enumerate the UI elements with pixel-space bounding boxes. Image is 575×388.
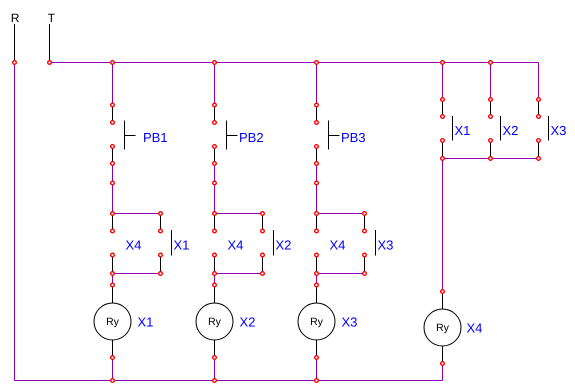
node xyxy=(489,115,493,119)
coil label X3 xyxy=(342,317,357,326)
wire (contact lead) xyxy=(160,214,162,232)
wire xyxy=(316,274,318,286)
pushbutton PB3 (NO contact symbol) xyxy=(329,121,340,150)
wire (box top) xyxy=(215,213,263,215)
wire (contact lead) xyxy=(442,100,444,117)
node xyxy=(111,181,115,185)
contact X3 bar (parallel group) xyxy=(548,116,550,141)
wire (parallel group bottom) xyxy=(443,158,539,160)
power terminal label T xyxy=(48,14,55,22)
wire (bottom rail) xyxy=(15,380,443,382)
wire (contact lead) xyxy=(160,255,162,274)
node xyxy=(441,157,445,161)
wire (contact lead) xyxy=(214,147,216,164)
wire (box top) xyxy=(317,213,365,215)
node xyxy=(489,98,493,102)
coil label X1 xyxy=(138,318,153,327)
wire (coil lead) xyxy=(112,340,114,358)
contact X1 bar (parallel group) xyxy=(452,116,454,141)
node xyxy=(261,229,265,233)
node (T bus start) xyxy=(48,61,52,65)
node (box top-left) xyxy=(213,212,217,216)
wire xyxy=(316,358,318,381)
pushbutton PB1 (NO contact symbol) xyxy=(125,121,136,150)
relay coil Ry X2 xyxy=(196,303,233,340)
wire (contact lead) xyxy=(364,214,366,232)
wire xyxy=(214,274,216,286)
pushbutton PB2 (NO contact symbol) xyxy=(227,121,238,150)
node xyxy=(213,162,217,166)
node xyxy=(315,283,319,287)
wire (left rail down) xyxy=(14,63,16,381)
node xyxy=(441,139,445,143)
coil label X2 xyxy=(240,317,255,326)
wire (R lead) xyxy=(14,24,16,63)
node xyxy=(441,115,445,119)
contact X4 label (rung 1) xyxy=(126,241,141,250)
wire (box bottom) xyxy=(215,273,263,275)
node xyxy=(537,98,541,102)
wire (coil lead) xyxy=(112,285,114,303)
wire (contact lead) xyxy=(214,255,216,274)
wire (contact lead) xyxy=(316,147,318,164)
relay coil Ry X3 xyxy=(298,303,335,340)
label PB1 xyxy=(144,133,167,142)
node xyxy=(537,157,541,161)
label PB2 xyxy=(240,133,263,142)
wire xyxy=(214,164,216,184)
node xyxy=(111,283,115,287)
node xyxy=(213,103,217,107)
node xyxy=(315,162,319,166)
label X1 (parallel branch) xyxy=(174,241,189,250)
wire (contact lead) xyxy=(538,100,540,117)
node xyxy=(363,229,367,233)
wire xyxy=(112,164,114,184)
contact X2 bar (parallel group) xyxy=(500,116,502,141)
wire xyxy=(316,164,318,184)
label X3 (parallel group) xyxy=(551,126,566,135)
wire (contact lead) xyxy=(316,105,318,123)
power terminal label R xyxy=(12,14,19,22)
wire xyxy=(112,63,114,106)
node (box top-right) xyxy=(261,212,265,216)
wire (contact lead) xyxy=(538,141,540,159)
node xyxy=(441,290,445,294)
wire (contact lead) xyxy=(112,147,114,164)
wire (contact lead) xyxy=(490,141,492,159)
wire (contact lead) xyxy=(316,214,318,232)
wire (coil lead) xyxy=(316,340,318,358)
node xyxy=(213,356,217,360)
wire (box top) xyxy=(113,213,161,215)
wire (T lead) xyxy=(49,24,51,63)
wire xyxy=(490,63,492,100)
node xyxy=(111,356,115,360)
node (bottom rail junction) xyxy=(213,379,217,383)
wire (coil lead) xyxy=(442,292,444,310)
node xyxy=(489,157,493,161)
node xyxy=(213,121,217,125)
wire (contact lead) xyxy=(112,255,114,274)
node (box bottom-right) xyxy=(261,272,265,276)
node (box top-right) xyxy=(363,212,367,216)
node (box bottom-right) xyxy=(159,272,163,276)
node xyxy=(159,229,163,233)
node (bus junction contact X1) xyxy=(441,61,445,65)
node xyxy=(315,121,319,125)
node xyxy=(111,253,115,257)
relay coil Ry X1 xyxy=(94,303,131,340)
node xyxy=(315,103,319,107)
node xyxy=(261,253,265,257)
wire (contact lead) xyxy=(214,214,216,232)
wire (box bottom) xyxy=(317,273,365,275)
node (box bottom-left) xyxy=(111,272,115,276)
wire xyxy=(112,358,114,381)
node (bottom rail junction) xyxy=(315,379,319,383)
wire xyxy=(214,358,216,381)
node xyxy=(111,162,115,166)
label PB3 xyxy=(342,133,365,142)
node (bus junction rung 2) xyxy=(213,61,217,65)
node xyxy=(315,181,319,185)
node xyxy=(111,145,115,149)
node xyxy=(315,253,319,257)
wire xyxy=(538,63,540,100)
node (box bottom-right) xyxy=(363,272,367,276)
node xyxy=(111,121,115,125)
node xyxy=(159,253,163,257)
node xyxy=(441,362,445,366)
contact X4 label (rung 2) xyxy=(228,241,243,250)
relay coil Ry X4 xyxy=(424,309,461,346)
wire (contact lead) xyxy=(316,255,318,274)
wire xyxy=(442,364,444,381)
wire xyxy=(112,183,114,214)
node xyxy=(363,253,367,257)
node (box top-left) xyxy=(315,212,319,216)
node xyxy=(111,229,115,233)
node xyxy=(213,229,217,233)
contact X1 bar (parallel branch) xyxy=(171,230,173,256)
wire xyxy=(316,183,318,214)
wire (X4 branch down) xyxy=(442,159,444,292)
coil label X4 xyxy=(467,324,482,333)
node (box top-left) xyxy=(111,212,115,216)
wire (top bus) xyxy=(50,62,539,64)
node xyxy=(213,145,217,149)
wire (coil lead) xyxy=(214,340,216,358)
node (box top-right) xyxy=(159,212,163,216)
contact X2 bar (parallel branch) xyxy=(273,230,275,256)
wire xyxy=(316,63,318,106)
node xyxy=(213,181,217,185)
wire (contact lead) xyxy=(214,105,216,123)
node (bus junction rung 1) xyxy=(111,61,115,65)
wire (contact lead) xyxy=(364,255,366,274)
node (box bottom-left) xyxy=(213,272,217,276)
wire (contact lead) xyxy=(262,255,264,274)
node xyxy=(537,139,541,143)
label X2 (parallel branch) xyxy=(276,240,291,249)
node (bottom rail junction) xyxy=(111,379,115,383)
node xyxy=(213,253,217,257)
wire (contact lead) xyxy=(112,214,114,232)
label X3 (parallel branch) xyxy=(378,240,393,249)
wire (contact lead) xyxy=(442,141,444,159)
node (box bottom-left) xyxy=(315,272,319,276)
node xyxy=(111,103,115,107)
wire (contact lead) xyxy=(262,214,264,232)
wire (coil lead) xyxy=(316,285,318,303)
wire (coil lead) xyxy=(214,285,216,303)
wire (contact lead) xyxy=(490,100,492,117)
node xyxy=(441,98,445,102)
node xyxy=(213,283,217,287)
wire xyxy=(214,183,216,214)
node xyxy=(315,229,319,233)
node xyxy=(315,145,319,149)
wire xyxy=(442,63,444,100)
node xyxy=(315,356,319,360)
label X1 (parallel group) xyxy=(455,126,470,135)
wire xyxy=(214,63,216,106)
node (bus junction rung 3) xyxy=(315,61,319,65)
contact X3 bar (parallel branch) xyxy=(375,230,377,256)
node (bus junction contact X2) xyxy=(489,61,493,65)
wire (coil lead) xyxy=(442,346,444,364)
label X2 (parallel group) xyxy=(503,126,518,135)
wire (contact lead) xyxy=(112,105,114,123)
contact X4 label (rung 3) xyxy=(330,241,345,250)
node (R rail top) xyxy=(13,61,17,65)
wire xyxy=(112,274,114,286)
wire (box bottom) xyxy=(113,273,161,275)
node xyxy=(537,115,541,119)
node xyxy=(489,139,493,143)
